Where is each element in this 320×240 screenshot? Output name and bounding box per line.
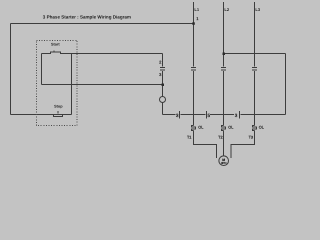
wire: bottom rail to Stop button [11, 114, 54, 116]
contactor main contact K3 [252, 68, 257, 71]
svg-text:T3: T3 [249, 135, 253, 139]
svg-text:OL: OL [198, 126, 203, 130]
contactor main contact K1 [191, 68, 196, 71]
wire: L2 to motor [223, 131, 225, 156]
svg-text:L2: L2 [224, 7, 229, 12]
wire: coil return bottom rail [163, 114, 286, 116]
wire: L3 to motor jog [231, 131, 255, 158]
svg-text:3 Phase Starter : Sample Wirin: 3 Phase Starter : Sample Wiring Diagram [43, 14, 131, 19]
junction dot node 3 at coil top [162, 84, 165, 87]
overload heater OL3 [253, 126, 257, 131]
wire: return to L2 [224, 53, 286, 55]
svg-text:Stop: Stop [54, 105, 63, 109]
svg-text:L3: L3 [255, 7, 260, 12]
wire: middle line node 3 [42, 84, 163, 86]
wire: L2 lower [223, 71, 225, 126]
svg-text:3: 3 [235, 113, 238, 118]
overload heater OL1 [192, 126, 196, 131]
junction dot node 4 at L2 tap [223, 53, 226, 56]
wire: L1 to motor jog [194, 131, 217, 158]
svg-text:L1: L1 [194, 7, 199, 12]
contactor main contact K2 [221, 68, 226, 71]
wire: riser Stop to Start line [71, 54, 73, 115]
wire: Start left drop [41, 54, 43, 85]
wire: return riser right [285, 54, 287, 115]
actuator tick Stop [57, 111, 59, 113]
power rail L1 [193, 2, 195, 67]
svg-text:5: 5 [208, 113, 211, 118]
pushbutton PB2 Stop (NC) [54, 115, 63, 117]
contact OL3 tick [239, 111, 241, 119]
svg-text:T1: T1 [187, 135, 191, 139]
junction dot node 1 at L1 tap [192, 22, 195, 25]
pushbutton PB1 Start (NO) with wire to aux contact [42, 52, 163, 54]
svg-text:OL: OL [259, 126, 264, 130]
svg-text:T2: T2 [218, 135, 222, 139]
wire: control left rail [10, 24, 12, 115]
svg-text:OL: OL [228, 126, 233, 130]
svg-text:Start: Start [51, 43, 60, 47]
wire: coil bottom drop [162, 103, 164, 115]
overload heater OL2 [222, 126, 226, 131]
coil M1 contactor coil [160, 97, 166, 103]
contact OL2 tick [206, 111, 208, 119]
start-stop station dashed enclosure [36, 40, 77, 125]
wire: control top rail from L1 tap [11, 23, 194, 25]
contact OL1 tick [179, 111, 181, 119]
wire: L3 lower [254, 71, 256, 126]
actuator tick Start [53, 50, 55, 52]
svg-text:3: 3 [176, 113, 179, 118]
power rail L2 [223, 2, 225, 67]
power rail L3 [254, 2, 256, 67]
svg-text:3PH: 3PH [221, 161, 226, 165]
wire: Stop to riser [63, 114, 72, 116]
wire: L1 lower [193, 71, 195, 126]
contact M aux holding (NO) [160, 54, 165, 97]
motor MTR 3-phase [219, 156, 229, 166]
